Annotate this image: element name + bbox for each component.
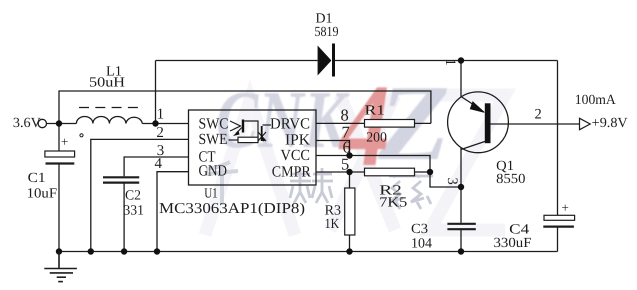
svg-text:5819: 5819 (315, 25, 339, 40)
svg-text:1: 1 (157, 106, 165, 122)
wire top rail left vertical drop to pin1 node (155, 61, 157, 124)
watermark giant pale letters (205, 95, 505, 235)
svg-text:50uH: 50uH (89, 76, 125, 91)
watermark CNK letters (216, 74, 350, 165)
junction input node (56, 120, 62, 126)
wire Q1 collector vertical to C3 (460, 148, 462, 223)
diode D1 (318, 44, 335, 77)
transistor Q1 (448, 92, 509, 153)
IC pin name labels (199, 115, 312, 180)
wire C2 bottom to rail (123, 184, 125, 252)
junction rail C3 (458, 248, 464, 254)
svg-text:C1: C1 (28, 171, 46, 186)
svg-text:100mA: 100mA (575, 93, 617, 108)
svg-text:R1: R1 (365, 104, 386, 119)
capacitor C3 plates (447, 224, 475, 229)
wire C4 top vertical (557, 61, 559, 216)
svg-text:+: + (562, 200, 569, 215)
junction collector node (458, 184, 464, 190)
watermark chinese char he (290, 168, 333, 203)
wire Q1 emitter vertical (460, 61, 462, 98)
svg-text:2: 2 (156, 125, 164, 141)
svg-text:2: 2 (535, 107, 542, 123)
svg-text:10uF: 10uF (27, 187, 58, 202)
inductor L1 core dashed line (79, 107, 138, 109)
resistor R3 body (345, 188, 355, 235)
svg-text:3: 3 (444, 178, 460, 185)
svg-text:+: + (61, 134, 68, 149)
svg-text:1: 1 (442, 59, 458, 66)
wire R3 top (349, 172, 351, 188)
svg-text:VCC: VCC (281, 147, 311, 164)
junction pin5/R3/R2 node (346, 169, 352, 175)
junction top rail emitter node (458, 57, 464, 63)
svg-text:3.6V: 3.6V (13, 116, 41, 131)
svg-text:104: 104 (411, 237, 432, 252)
wire pin7 IPK down to pin6 line (316, 141, 350, 156)
svg-text:200: 200 (366, 131, 387, 146)
svg-text:GND: GND (199, 163, 228, 180)
resistor R1 body (365, 120, 415, 128)
svg-text:C2: C2 (125, 189, 141, 204)
junction L1/pin1 node (152, 120, 158, 126)
junction pin6/pin7 node (346, 152, 352, 158)
wire R3 bottom to rail (349, 235, 351, 252)
svg-text:CMPR: CMPR (272, 163, 312, 180)
resistor R2 body (365, 168, 415, 176)
wire pin8 DRVC to R1 (316, 122, 365, 124)
node 3.6V input terminal (38, 119, 46, 127)
svg-text:MC33063AP1(DIP8): MC33063AP1(DIP8) (159, 201, 305, 217)
capacitor C4 plates (543, 200, 574, 227)
svg-text:330uF: 330uF (494, 236, 532, 251)
wire pin3 CT to C2 (124, 157, 188, 176)
wire pin6 VCC line to collector node (316, 156, 461, 188)
svg-text:8550: 8550 (496, 172, 525, 187)
svg-text:1K: 1K (325, 217, 340, 232)
wire feedback top line from input node to R1 right (59, 91, 431, 124)
svg-text:5: 5 (341, 154, 349, 173)
wire R2 right to node (415, 171, 431, 173)
svg-text:SWE: SWE (199, 131, 228, 148)
wire top rail right segment (335, 60, 558, 62)
svg-text:SWC: SWC (199, 115, 229, 132)
op-amp U1 IC box MC33063 (189, 110, 317, 185)
junction rail R3 (346, 248, 352, 254)
U1 internal darlington symbol (229, 120, 272, 143)
inductor L1 polarity dot (80, 134, 83, 137)
wire top rail left segment (156, 60, 318, 62)
watermark chinese char zi (389, 172, 433, 209)
wire bottom rail (59, 251, 558, 253)
wire C3 bottom to rail (460, 230, 462, 252)
wire L1 to pin 1 (142, 123, 188, 125)
wire pin4 GND to rail (157, 172, 189, 252)
wire pin2 SWE to ground drop (91, 139, 189, 251)
watermark chinese char qian (206, 162, 238, 205)
svg-text:IPK: IPK (285, 132, 311, 149)
wire C1 bottom to rail (58, 165, 60, 252)
pin number labels (155, 106, 165, 172)
svg-text:DRVC: DRVC (270, 115, 310, 132)
junction rail pin2 drop (88, 248, 94, 254)
output arrow +9.8V (580, 118, 591, 129)
wire Q1 base to output (491, 123, 580, 125)
wire R1 right to corner (415, 122, 431, 124)
junction rail C1 (56, 248, 62, 254)
wire 3.6V terminal to L1 (47, 123, 77, 125)
wire input node down to C1 (58, 124, 60, 152)
junction rail C2 (121, 248, 127, 254)
capacitor C1 plates (45, 134, 75, 164)
svg-text:7K5: 7K5 (379, 196, 407, 211)
ground symbol (44, 252, 77, 282)
wire C4 bottom to rail (557, 228, 559, 252)
junction rail pin4 (154, 248, 160, 254)
svg-text:4: 4 (155, 156, 163, 172)
capacitor C2 plates (103, 177, 139, 182)
junction R2 right node (427, 169, 433, 175)
wire pin5 CMPR to R2 (316, 171, 365, 173)
svg-text:U1: U1 (204, 187, 218, 202)
svg-text:+9.8V: +9.8V (592, 116, 628, 131)
svg-text:C3: C3 (411, 222, 428, 237)
svg-text:331: 331 (123, 204, 144, 219)
inductor L1 coil (76, 117, 142, 124)
